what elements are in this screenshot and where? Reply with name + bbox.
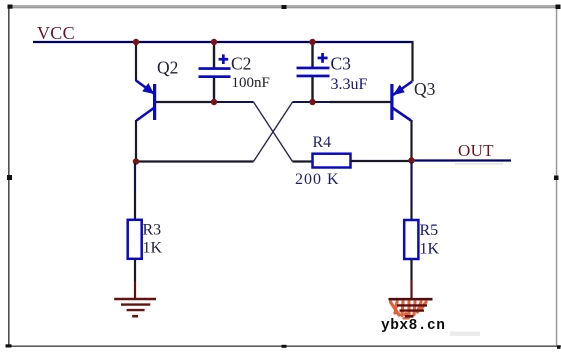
- wire Q2 collector vertical: [135, 120, 137, 162]
- wire Q2 emitter vertical: [135, 42, 137, 81]
- svg-text:VCC: VCC: [37, 23, 75, 43]
- svg-text:3.3uF: 3.3uF: [331, 76, 368, 93]
- wire Q2 base line: [156, 101, 214, 103]
- svg-text:OUT: OUT: [458, 141, 494, 160]
- watermark smudge: [450, 332, 480, 337]
- ground left: [114, 299, 156, 316]
- resistor R3: [128, 220, 142, 259]
- wire Q3 collector vertical: [410, 120, 412, 161]
- wire R5 bottom lead: [410, 259, 412, 299]
- junction node C3-base: [309, 99, 315, 105]
- svg-text:Q3: Q3: [414, 79, 436, 99]
- svg-text:1K: 1K: [143, 240, 163, 257]
- junction node VCC-Q2: [133, 39, 139, 45]
- svg-text:R4: R4: [313, 134, 332, 151]
- svg-text:Q2: Q2: [157, 58, 178, 78]
- capacitor C3: [297, 53, 330, 77]
- junction node Q2 collector: [133, 158, 139, 164]
- svg-text:C3: C3: [331, 54, 352, 74]
- wire cross diagonal B: [254, 102, 293, 162]
- junction node VCC-C3: [309, 39, 315, 45]
- wire C2 bottom lead: [213, 78, 215, 102]
- wire cross diagonal A: [254, 102, 293, 162]
- resistor R5: [404, 220, 418, 259]
- wire C2 top lead: [213, 43, 215, 68]
- svg-text:100nF: 100nF: [232, 75, 270, 91]
- svg-text:ybx8.cn: ybx8.cn: [381, 318, 445, 334]
- junction node VCC-C2: [211, 39, 217, 45]
- wire C3 top lead: [311, 43, 313, 67]
- svg-text:R3: R3: [143, 222, 162, 239]
- svg-text:1K: 1K: [420, 241, 440, 258]
- transistor Q3: [390, 82, 412, 121]
- wire C3 bottom lead: [311, 77, 313, 102]
- svg-text:R5: R5: [420, 222, 439, 239]
- wire Q3 emitter vertical: [411, 41, 413, 82]
- wire Q3 base line: [293, 101, 331, 103]
- transistor Q2: [136, 81, 156, 121]
- wire R4 right lead: [351, 160, 412, 162]
- wire collector bus left: [136, 160, 254, 162]
- junction node OUT: [408, 157, 414, 163]
- svg-text:200 K: 200 K: [295, 171, 340, 188]
- wire OUT: [412, 159, 512, 161]
- capacitor C2: [199, 54, 231, 78]
- svg-text:C2: C2: [231, 54, 251, 74]
- wire R3 bottom lead: [134, 259, 136, 299]
- wire R3 top lead: [134, 163, 136, 220]
- wire R4 left lead: [293, 160, 313, 162]
- junction node C2-base: [211, 99, 217, 105]
- ground right: [389, 299, 433, 318]
- wire R5 top lead: [410, 162, 412, 220]
- resistor R4: [313, 154, 351, 168]
- wire VCC rail: [33, 41, 414, 43]
